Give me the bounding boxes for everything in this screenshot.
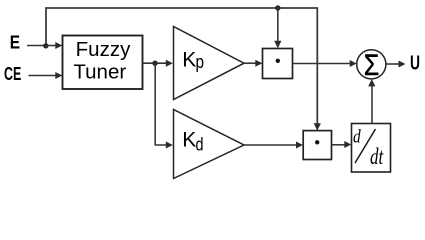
arrowhead into multiplier M1 [255,60,262,67]
svg-text:dt: dt [370,144,384,169]
svg-text:d: d [353,127,361,148]
block d/dt (derivative) [352,124,391,173]
svg-text:Fuzzy: Fuzzy [76,38,131,61]
svg-text:Tuner: Tuner [73,60,126,83]
gain Kp (triangle) [174,27,245,100]
arrowhead output U [399,61,406,68]
junction dot on top wire [275,5,280,10]
arrowhead into summer [350,60,357,67]
multiplier M1 (dot product box) [263,49,293,79]
wire CE input [29,75,58,77]
junction dot after Fuzzy Tuner [152,61,157,66]
wire summer output [386,63,400,65]
wire Kp output [244,62,257,64]
arrowhead into Kd [166,142,173,149]
summer (sigma circle) [357,49,386,82]
svg-text:K: K [182,48,196,71]
wire top feedback horizontal [46,8,317,126]
wire branch down to Kd [155,63,167,145]
arrowhead into Kp [166,60,173,67]
svg-text:p: p [196,52,205,72]
svg-text:d: d [196,134,204,154]
arrowhead into multiplier M1 top [274,41,281,48]
wire E input [27,45,57,47]
wire M1 output to summer [293,63,352,65]
svg-text:Σ: Σ [364,49,380,82]
arrowhead CE into Fuzzy Tuner [55,72,62,79]
wire d/dt up to summer [371,84,373,124]
arrowhead into multiplier M2 [296,142,303,149]
junction dot node E [43,43,48,48]
svg-text:U: U [410,53,420,75]
arrowhead into multiplier M2 top [314,123,321,130]
multiplier M2 (dot product box) [303,131,331,160]
svg-text:K: K [182,128,196,151]
wire Fuzzy Tuner output [143,62,168,64]
gain Kd (triangle) [174,110,245,179]
arrowhead into summer bottom [368,79,375,86]
wire M2 output to d/dt [332,144,347,146]
arrowhead into d/dt [344,141,351,148]
wire from top junction down to multiplier M1 [277,8,279,44]
arrowhead E into Fuzzy Tuner [55,42,62,49]
svg-text:E: E [10,33,20,53]
svg-text:CE: CE [4,64,21,84]
block Fuzzy Tuner [63,36,143,90]
wire Kd output [244,144,298,146]
